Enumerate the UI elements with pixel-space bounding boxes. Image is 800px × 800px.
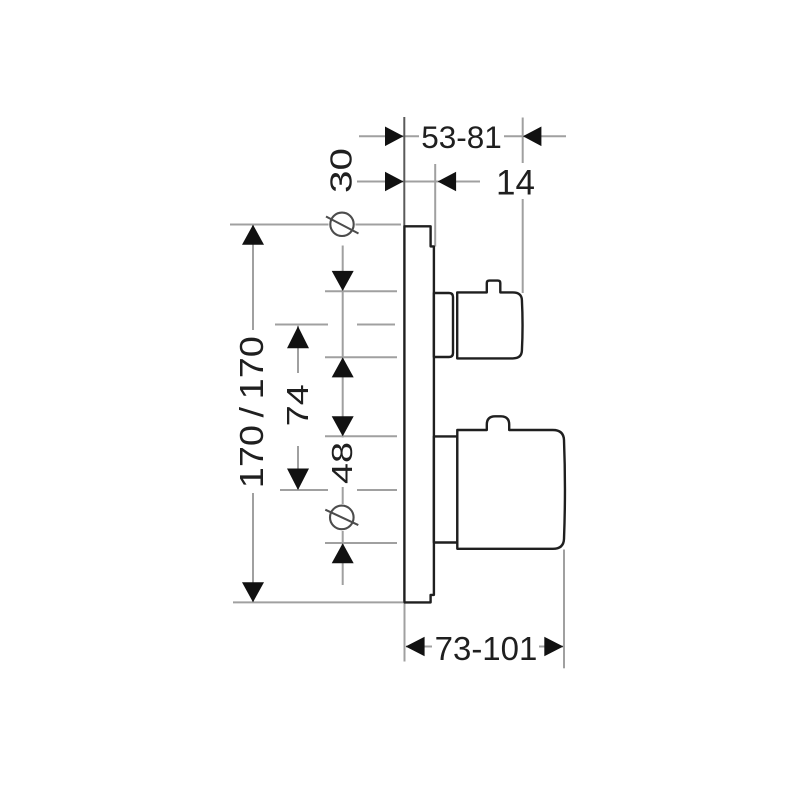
svg-text:14: 14 (496, 164, 535, 203)
svg-text:170 / 170: 170 / 170 (233, 336, 270, 488)
svg-text:73-101: 73-101 (435, 630, 538, 667)
svg-text:30: 30 (324, 148, 359, 193)
svg-text:53-81: 53-81 (421, 119, 502, 155)
svg-text:74: 74 (280, 384, 315, 426)
svg-text:48: 48 (327, 442, 359, 484)
